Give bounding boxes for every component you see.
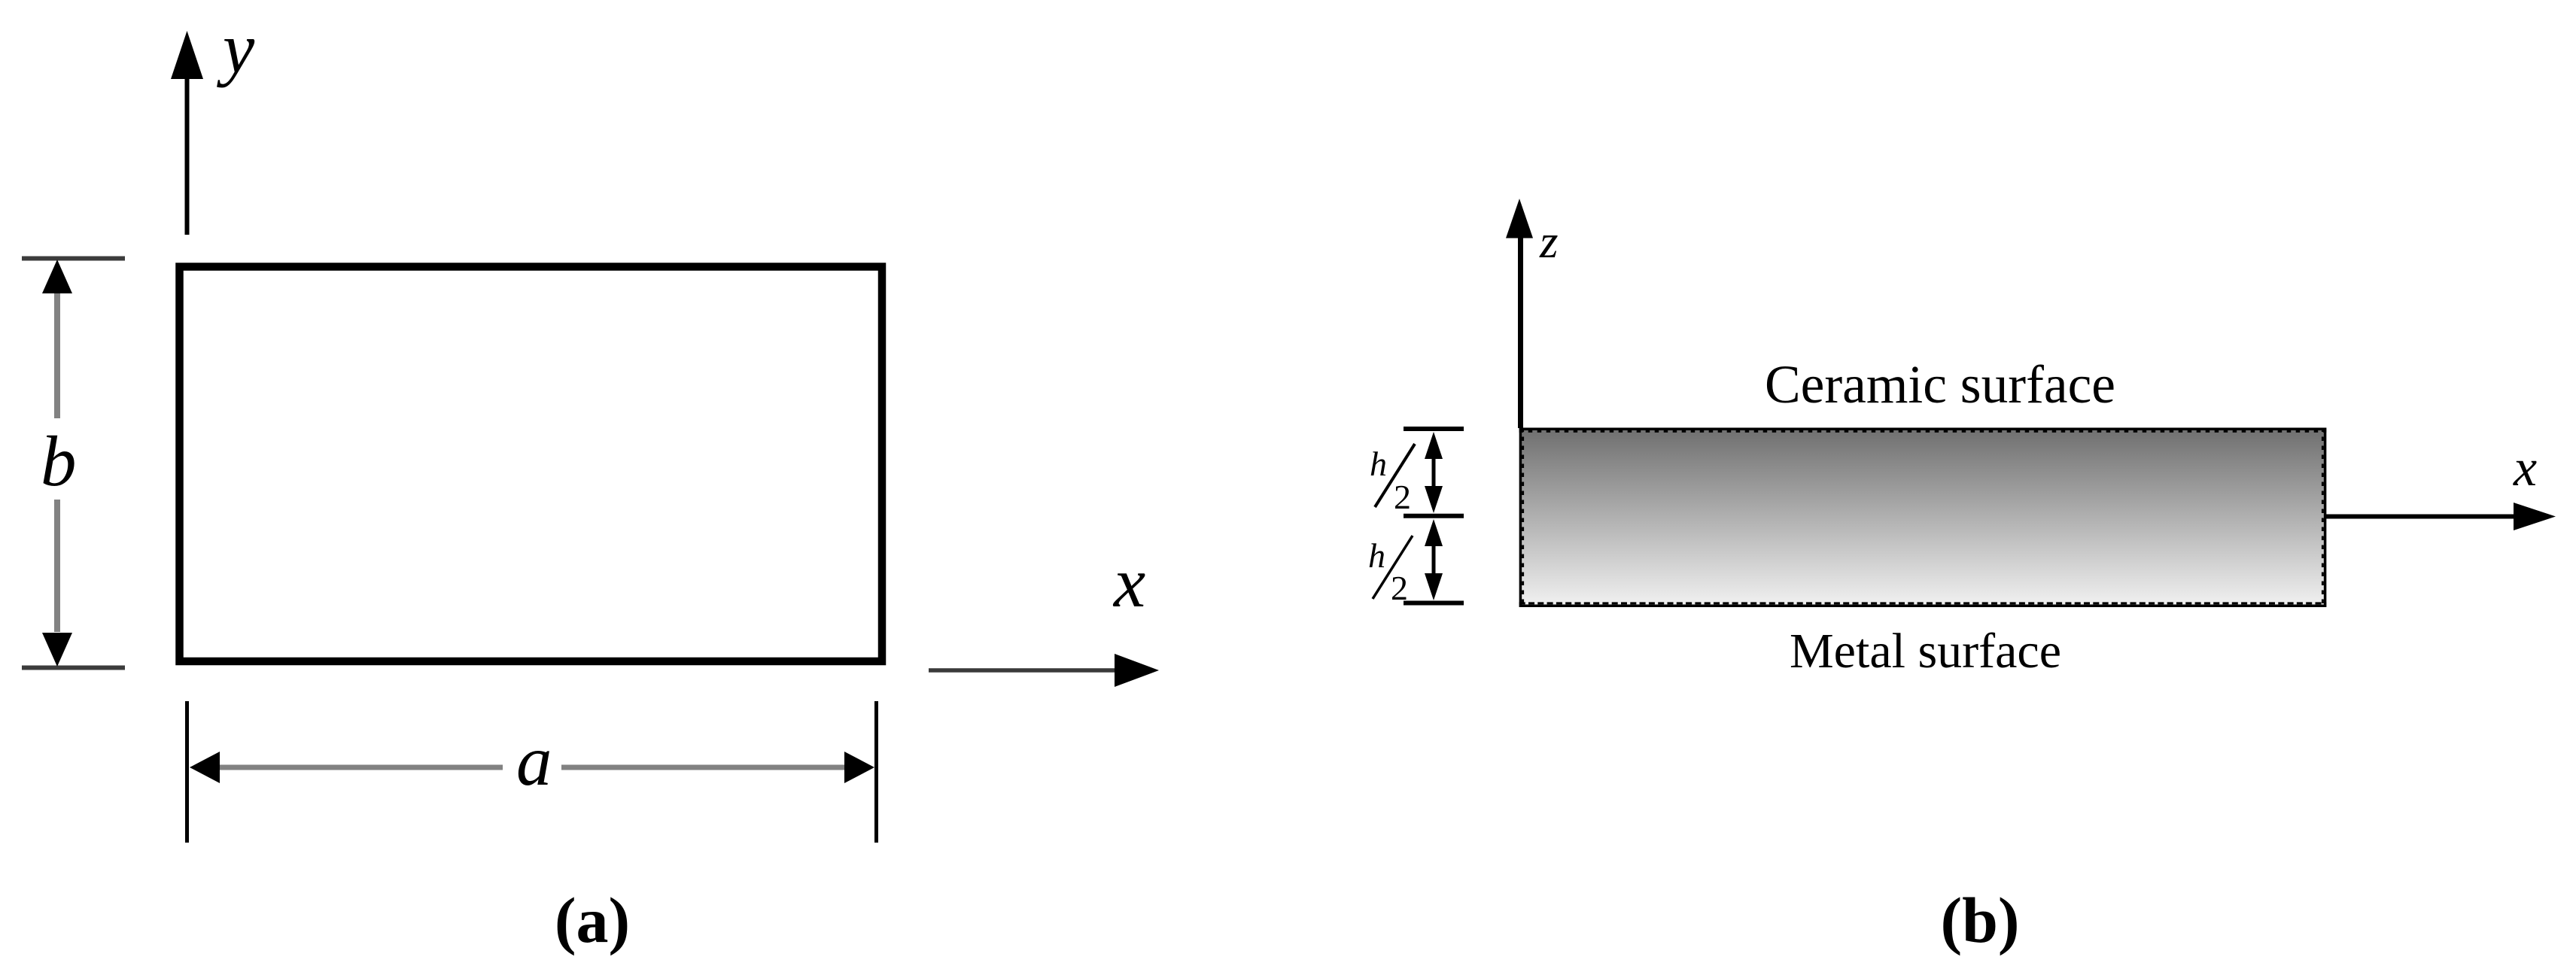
svg-text:(a): (a) [555, 884, 630, 956]
svg-text:2: 2 [1391, 569, 1408, 607]
h/2 top tick [1404, 427, 1464, 431]
y-axis arrowhead [171, 31, 203, 79]
a label halo [503, 740, 561, 791]
FGM plate (b) with gradient fill [1520, 430, 2325, 605]
svg-text:Metal surface: Metal surface [1790, 624, 2061, 679]
a dimension left extension line [185, 701, 189, 843]
b dimension top tick [22, 257, 125, 261]
svg-text:y: y [217, 8, 255, 88]
x-axis arrowhead (b) [2514, 503, 2556, 530]
z-axis arrowhead [1506, 199, 1533, 238]
FGM plate bottom border solid [1519, 604, 2327, 607]
b dimension line [54, 293, 60, 632]
FGM plate right border solid [2324, 428, 2327, 607]
svg-text:Ceramic surface: Ceramic surface [1765, 354, 2115, 415]
FGM plate left border solid [1519, 428, 1522, 607]
svg-text:x: x [1112, 542, 1145, 622]
lower h/2 dimension line [1432, 539, 1436, 581]
b dimension lower arrowhead [42, 633, 72, 667]
x-axis shaft (a) [929, 668, 1118, 673]
b dimension bottom tick [22, 666, 125, 670]
FGM plate right border teeth [2322, 428, 2324, 607]
h/2 middle tick [1404, 514, 1464, 518]
x-axis shaft (b) [2325, 515, 2516, 519]
svg-text:x: x [2513, 439, 2537, 497]
plate rectangle (a) [180, 267, 883, 662]
svg-text:b: b [41, 421, 77, 501]
b dimension upper arrowhead [42, 260, 72, 293]
FGM plate top border teeth [1519, 430, 2327, 433]
a dimension line [218, 765, 846, 770]
a dimension left arrowhead [190, 752, 220, 783]
svg-text:2: 2 [1394, 478, 1411, 516]
b label halo [30, 418, 84, 500]
FGM plate left border teeth [1522, 428, 1524, 607]
a dimension right extension line [874, 701, 878, 843]
upper h/2 dimension line [1432, 451, 1436, 494]
svg-text:a: a [516, 721, 552, 800]
h/2 bottom tick [1404, 601, 1464, 606]
upper h/2 label: slash [1375, 444, 1415, 507]
lower h/2 up arrowhead [1425, 519, 1443, 546]
FGM plate bottom border teeth [1519, 602, 2327, 604]
a dimension right arrowhead [844, 752, 874, 783]
upper h/2 down arrowhead [1425, 486, 1443, 513]
upper h/2 up arrowhead [1425, 432, 1443, 459]
z-axis shaft [1518, 235, 1523, 428]
svg-text:(b): (b) [1940, 884, 2019, 956]
y-axis shaft [185, 75, 190, 235]
svg-text:h: h [1370, 445, 1387, 483]
svg-text:z: z [1539, 215, 1559, 268]
svg-text:h: h [1368, 536, 1385, 575]
lower h/2 label: slash [1373, 536, 1413, 599]
lower h/2 down arrowhead [1425, 573, 1443, 600]
FGM plate top border solid [1519, 427, 2327, 430]
x-axis arrowhead (a) [1115, 654, 1159, 687]
